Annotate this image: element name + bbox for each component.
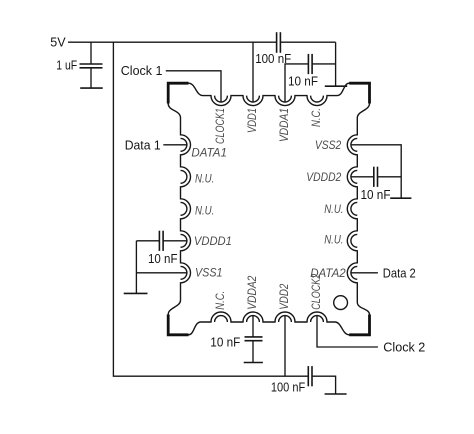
- svg-text:CLOCK2: CLOCK2: [309, 274, 323, 310]
- wire VDD1 riser to 5V rail: [252, 42, 254, 102]
- wire VDD2 riser to bottom 5V rail: [284, 316, 286, 376]
- pin N.U. (left) castellation: [181, 202, 187, 215]
- svg-text:10 nF: 10 nF: [148, 252, 178, 266]
- svg-text:Clock 1: Clock 1: [121, 64, 163, 78]
- pin VDDD1 (left) castellation: [181, 234, 187, 247]
- svg-text:100 nF: 100 nF: [271, 380, 306, 394]
- pin VDDD2 (right) castellation: [351, 170, 357, 183]
- svg-text:N.U.: N.U.: [195, 204, 214, 218]
- svg-text:VDD2: VDD2: [277, 284, 291, 310]
- pin N.C. (top) castellation: [311, 96, 324, 102]
- pin CLOCK1 (top) castellation: [215, 96, 228, 102]
- wire CLOCK2 to Clock 2: [317, 316, 378, 347]
- pin VDD2 (bottom) castellation: [279, 316, 292, 322]
- pin VSS1 (left) castellation: [181, 266, 187, 279]
- pin DATA2 (right) castellation: [351, 266, 357, 279]
- pin DATA1 (left) castellation: [181, 138, 187, 151]
- svg-text:N.C.: N.C.: [309, 108, 323, 127]
- svg-text:N.U.: N.U.: [324, 202, 343, 216]
- wire VSS1 to left node: [136, 272, 186, 274]
- pin CLOCK2 (bottom) castellation: [311, 316, 324, 322]
- svg-text:N.U.: N.U.: [324, 233, 343, 247]
- svg-text:DATA1: DATA1: [191, 146, 227, 160]
- svg-text:N.C.: N.C.: [213, 291, 227, 310]
- wire 100nF right segment to node: [280, 41, 335, 43]
- svg-text:Data 1: Data 1: [125, 138, 161, 152]
- capacitor C7 100 nF (bottom): [308, 366, 312, 386]
- ground bar under C1: [80, 87, 103, 89]
- svg-text:5V: 5V: [50, 36, 66, 50]
- wire VDDA2 down through C6: [252, 316, 254, 337]
- svg-text:VDDA1: VDDA1: [277, 108, 291, 142]
- svg-text:10 nF: 10 nF: [288, 74, 318, 88]
- wire VDDA1 riser and 10nF branch: [285, 64, 308, 102]
- wire C4 to right node: [378, 176, 402, 178]
- IC U1 package outline (QFN with castellated pins): [168, 83, 369, 335]
- svg-text:N.U.: N.U.: [195, 172, 214, 186]
- corner tab bottom-right: [349, 315, 369, 335]
- pin N.C. (bottom) castellation: [215, 316, 228, 322]
- wire C3 to corner node: [312, 63, 336, 65]
- svg-text:1 uF: 1 uF: [56, 59, 77, 73]
- capacitor C3 10 nF (top right): [308, 54, 312, 74]
- svg-text:VDD1: VDD1: [245, 108, 259, 133]
- wire C7 to ground stub: [312, 376, 336, 394]
- capacitor C5 10 nF (left): [159, 231, 163, 251]
- pin 1 indicator dot: [334, 296, 348, 310]
- svg-text:VSS1: VSS1: [195, 265, 223, 279]
- pin N.U. (right) castellation: [351, 202, 357, 215]
- svg-text:Data 2: Data 2: [383, 266, 416, 280]
- capacitor C6 10 nF (bottom): [245, 337, 263, 341]
- svg-text:Clock 2: Clock 2: [383, 341, 425, 355]
- svg-text:VDDD1: VDDD1: [194, 234, 232, 248]
- pin VDDA1 (top) castellation: [279, 96, 292, 102]
- capacitor C1 1 uF with leads: [80, 42, 103, 88]
- ground bar bottom right: [325, 393, 347, 395]
- svg-text:VSS2: VSS2: [315, 138, 341, 152]
- corner tab bottom-left: [168, 315, 188, 335]
- corner tab top-right: [349, 83, 369, 103]
- capacitor C2 100 nF (top): [277, 32, 281, 53]
- svg-text:10 nF: 10 nF: [361, 188, 391, 202]
- wire C6 to ground: [252, 341, 254, 363]
- capacitor C4 10 nF (right): [374, 167, 378, 187]
- svg-text:VDDA2: VDDA2: [245, 276, 259, 310]
- wire C5 to left node: [136, 240, 159, 242]
- wire 5V left rail down and along bottom: [113, 42, 308, 376]
- wire Clock 1 to pin CLOCK1: [166, 71, 221, 102]
- wire VDDD2 through C4: [351, 176, 374, 178]
- svg-text:CLOCK1: CLOCK1: [213, 108, 227, 144]
- ground bar left: [124, 292, 148, 294]
- terminal bar at corner pad: [325, 85, 347, 87]
- wire node to corner pad: [335, 42, 337, 86]
- ground bar right: [390, 197, 411, 199]
- wire left node down to ground: [135, 241, 137, 294]
- pin VSS2 (right) castellation: [351, 138, 357, 151]
- wire VDDD1 through C5 to left node: [163, 240, 187, 242]
- pin N.U. (left) castellation: [181, 170, 187, 183]
- corner tab top-left: [168, 83, 188, 103]
- wire Data 1 to pin DATA1: [163, 144, 186, 146]
- pin VDDA2 (bottom) castellation: [247, 316, 260, 322]
- pin VDD1 (top) castellation: [247, 96, 260, 102]
- pin N.U. (right) castellation: [351, 234, 357, 247]
- ground bar bottom middle: [244, 362, 263, 364]
- svg-text:10 nF: 10 nF: [210, 335, 240, 349]
- wire Data 2 from pin DATA2: [351, 272, 378, 274]
- svg-text:VDDD2: VDDD2: [306, 170, 341, 184]
- wire 5V horizontal rail: [68, 41, 277, 43]
- wire VSS2 to right node: [351, 145, 401, 198]
